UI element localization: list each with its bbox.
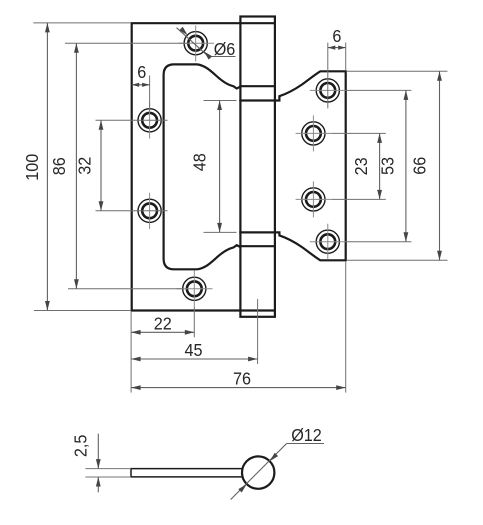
right plate outline bbox=[275, 71, 346, 260]
dimension 86 bbox=[49, 43, 79, 289]
svg-text:32: 32 bbox=[75, 157, 95, 175]
svg-text:Ø6: Ø6 bbox=[214, 39, 236, 59]
dimension 6 left bbox=[132, 62, 150, 86]
svg-text:6: 6 bbox=[332, 26, 341, 46]
svg-text:100: 100 bbox=[22, 154, 42, 181]
svg-text:6: 6 bbox=[137, 62, 146, 82]
dimension 53 bbox=[378, 90, 408, 241]
left plate inner cutout contour bbox=[164, 64, 241, 269]
barrel (knuckle cylinder) bbox=[240, 17, 275, 317]
dimension 2,5 bbox=[71, 434, 131, 493]
svg-text:2,5: 2,5 bbox=[71, 435, 91, 458]
dimension 45 bbox=[131, 340, 258, 361]
dimension 32 bbox=[75, 120, 104, 211]
screw hole right 4 bbox=[316, 230, 339, 253]
leader and label d6 bbox=[177, 27, 236, 60]
dimension 22 bbox=[131, 314, 194, 335]
screw hole right 2 bbox=[302, 122, 325, 145]
dimension 6 right bbox=[328, 26, 346, 50]
svg-text:76: 76 bbox=[233, 369, 251, 389]
dimension 23 bbox=[351, 133, 382, 199]
svg-text:45: 45 bbox=[184, 340, 202, 360]
svg-text:23: 23 bbox=[351, 157, 371, 175]
screw hole right 3 bbox=[302, 188, 325, 211]
svg-text:86: 86 bbox=[49, 157, 69, 175]
leader and label d12 bbox=[231, 425, 324, 499]
svg-text:53: 53 bbox=[378, 157, 398, 175]
screw hole right 1 bbox=[316, 79, 339, 102]
side view plate bar bbox=[131, 469, 243, 477]
dimension 48 bbox=[190, 101, 222, 233]
screw hole top (countersunk, called out as d6) bbox=[184, 32, 207, 55]
svg-text:Ø12: Ø12 bbox=[291, 425, 322, 445]
side view knuckle circle bbox=[242, 456, 274, 488]
dimension 76 bbox=[131, 369, 346, 390]
hole centerlines bbox=[150, 26, 346, 308]
screw hole bottom bbox=[183, 277, 206, 300]
dimension 100 bbox=[22, 23, 50, 311]
svg-text:48: 48 bbox=[190, 153, 210, 171]
svg-text:22: 22 bbox=[154, 314, 172, 334]
screw hole left upper bbox=[138, 109, 161, 132]
svg-text:66: 66 bbox=[410, 157, 430, 175]
left plate outline bbox=[132, 23, 241, 310]
dimension 66 bbox=[410, 71, 442, 260]
screw hole left lower bbox=[138, 199, 161, 222]
extension lines bbox=[33, 23, 447, 393]
